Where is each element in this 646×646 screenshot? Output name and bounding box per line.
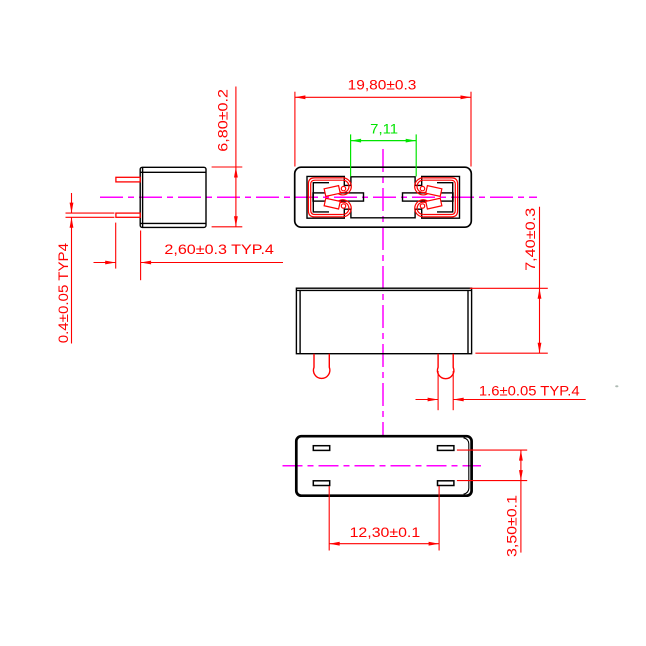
top view left red clip shell [308, 178, 351, 217]
dimension 2,60 extension lines [116, 223, 141, 281]
front view body [296, 288, 471, 354]
dimension 12,30 extension lines [329, 486, 439, 551]
centerline horizontal (side + top view) [100, 196, 537, 198]
svg-text:2,60±0.3 TYP.4: 2,60±0.3 TYP.4 [164, 241, 274, 257]
dimension 7,40±0.3 extension lines [470, 288, 548, 353]
centerline vertical (top/front/bottom views) [382, 149, 384, 436]
dimension 2,60 line with outside arrows [94, 261, 284, 265]
bottom view slot top-right [438, 446, 454, 451]
svg-text:19,80±0.3: 19,80±0.3 [348, 76, 417, 92]
top view left tab [313, 193, 364, 201]
dimension 19,80±0.3 extension lines [295, 92, 471, 167]
svg-text:0.4±0.05 TYP4: 0.4±0.05 TYP4 [55, 243, 71, 344]
dimension 6,80±0.2 extension lines [212, 167, 243, 227]
top view right red contact plates [426, 186, 442, 197]
bottom view slot top-left [313, 446, 329, 451]
faint stray dot [615, 385, 618, 387]
bottom view slot bottom-left [313, 481, 329, 486]
pin edge extension lines (0.4 dim) [66, 213, 115, 217]
dimension 7,40±0.3 line with arrows [538, 207, 542, 354]
svg-text:7,11: 7,11 [370, 120, 398, 136]
top view left red contact plates [324, 186, 340, 197]
dimension 12,30 line with arrows [329, 542, 439, 546]
svg-text:1.6±0.05 TYP.4: 1.6±0.05 TYP.4 [479, 383, 580, 399]
dimension 1.6 extension lines [438, 371, 453, 410]
bottom view inner right edge line [464, 438, 469, 494]
bottom view slot bottom-right [438, 481, 454, 486]
top view right black clip [437, 183, 453, 212]
svg-text:6,80±0.2: 6,80±0.2 [214, 89, 230, 152]
top view left red clip hairpin bends [335, 178, 351, 195]
top view outer body [295, 167, 472, 227]
front view left pin [313, 354, 329, 379]
top view right red clip hairpin bends [415, 178, 431, 195]
bottom view outer body [296, 436, 471, 496]
dimension 7,11 extension lines (green) [351, 134, 417, 176]
centerline horizontal (bottom view) [283, 465, 482, 467]
front view right pin [437, 354, 453, 379]
top view inner cavity outline [307, 176, 460, 218]
dimension 6,80±0.2 line with arrows [234, 87, 238, 227]
side view bottom pin [116, 213, 140, 217]
side view body [140, 167, 206, 227]
top view right tab [403, 193, 454, 201]
svg-text:7,40±0.3: 7,40±0.3 [522, 208, 538, 271]
svg-text:3,50±0.1: 3,50±0.1 [503, 495, 519, 557]
dimension 7,11 line with arrows (green) [351, 139, 417, 143]
dimension 19,80±0.3 line with arrows [295, 95, 471, 99]
dimension 3,50 extension lines [457, 450, 527, 481]
dimension 0.4 leader lines and arrows [70, 193, 74, 344]
top view left black clip [313, 183, 329, 212]
dimension 3,50 line with arrows [519, 450, 523, 552]
side view top pin [116, 177, 140, 182]
top view right red clip shell [415, 178, 458, 217]
svg-text:12,30±0.1: 12,30±0.1 [350, 524, 421, 540]
dimension 1.6 line with outside arrows [416, 398, 586, 402]
